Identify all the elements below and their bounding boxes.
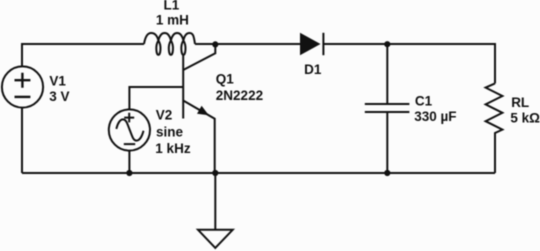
svg-text:RL: RL (511, 95, 529, 110)
svg-text:3 V: 3 V (49, 89, 69, 104)
svg-text:L1: L1 (164, 0, 180, 13)
wire: V2 bottom lead (128, 151, 130, 173)
inductor L1 (144, 33, 195, 55)
ground (198, 173, 233, 248)
wire: bottom rail (22, 172, 495, 174)
resistor RL (486, 83, 503, 173)
wire: top rail from node B to RL (387, 44, 495, 83)
node: emitter/ground junction on bottom rail (212, 170, 218, 176)
wire: V2 top lead to Q1 base (129, 87, 183, 109)
svg-text:V1: V1 (49, 74, 66, 89)
source V2 sine (109, 109, 150, 150)
svg-text:sine: sine (156, 124, 184, 139)
transistor Q1 (183, 44, 215, 173)
svg-text:Q1: Q1 (216, 72, 235, 87)
svg-text:C1: C1 (415, 93, 433, 108)
voltage source V1 (2, 66, 43, 107)
svg-text:1 kHz: 1 kHz (155, 141, 191, 156)
svg-text:D1: D1 (304, 62, 322, 77)
wire: top rail from D1 cathode to node B (323, 43, 387, 45)
wire: top rail from L1 to D1 anode (195, 43, 300, 45)
node B: junction of D1, C1, RL (384, 41, 390, 47)
node A: junction of L1, D1, Q1 collector (212, 41, 218, 47)
wire: top rail from V1 to L1 (22, 44, 144, 67)
svg-text:1 mH: 1 mH (156, 12, 189, 27)
wire: left rail from V1 to bottom rail (21, 108, 23, 173)
diode D1 (300, 33, 323, 55)
node: V2 bottom rail junction (126, 170, 132, 176)
node: C1 bottom rail junction (384, 170, 390, 176)
svg-text:2N2222: 2N2222 (216, 88, 263, 103)
svg-text:V2: V2 (156, 108, 173, 123)
svg-text:330 µF: 330 µF (414, 109, 456, 124)
svg-text:5 kΩ: 5 kΩ (510, 110, 540, 125)
capacitor C1 (365, 44, 410, 173)
